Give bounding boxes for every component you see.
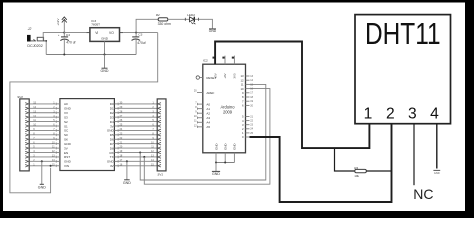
wire SV2 row 10 to U1 bbox=[30, 125, 56, 127]
svg-text:GND: GND bbox=[101, 37, 109, 41]
Arduino bottom pin GND bbox=[233, 153, 235, 163]
header SV2 bbox=[20, 99, 29, 171]
LED2 arrows bbox=[191, 22, 195, 24]
wire +5V net to DHT11 pin1 bbox=[215, 42, 369, 149]
wire jack ground drop bbox=[45, 41, 47, 55]
+12V supply symbol bbox=[63, 19, 65, 33]
Arduino top pin +5V bbox=[214, 56, 216, 65]
wire SV2 row 5 to U1 bbox=[30, 147, 56, 149]
svg-text:D3: D3 bbox=[110, 115, 114, 119]
svg-text:VIN: VIN bbox=[64, 164, 69, 168]
svg-text:S2: S2 bbox=[64, 120, 68, 124]
wire U1 to SV1 row 7 bbox=[119, 129, 158, 131]
svg-text:2: 2 bbox=[386, 105, 395, 122]
Arduino pin A3 bbox=[197, 117, 203, 119]
svg-text:D5: D5 bbox=[110, 133, 114, 137]
capacitor C4 bbox=[63, 33, 65, 37]
wire jack to +12V rail bbox=[43, 33, 64, 41]
node VO output bbox=[135, 32, 137, 34]
LED2 diode bbox=[190, 17, 195, 22]
wire U1 to SV1 row 4 bbox=[119, 116, 158, 118]
wire U1 to SV1 row 5 bbox=[119, 121, 158, 123]
svg-text:D0: D0 bbox=[110, 102, 114, 106]
svg-text:RST: RST bbox=[64, 155, 70, 159]
svg-text:GND: GND bbox=[101, 69, 109, 73]
wire SV2 row 9 to U1 bbox=[30, 129, 56, 131]
wire Arduino GND bus bbox=[216, 162, 234, 164]
node regulator gnd bbox=[103, 53, 105, 55]
wire SV2 row 2 to U1 bbox=[30, 160, 56, 162]
wire SV2 row 7 to U1 bbox=[30, 138, 56, 140]
svg-text:DCJ0202: DCJ0202 bbox=[27, 44, 42, 48]
svg-text:TX: TX bbox=[110, 155, 114, 159]
Arduino top pin +9V bbox=[224, 56, 226, 65]
wire +5V feed to NodeMCU VIN bbox=[10, 33, 158, 193]
svg-text:GND: GND bbox=[64, 160, 72, 164]
Arduino bottom pin GND bbox=[215, 153, 217, 163]
wire SV2 row 8 to U1 bbox=[30, 134, 56, 136]
wire U1 RX to Arduino bbox=[140, 84, 266, 180]
svg-text:VO: VO bbox=[109, 31, 114, 35]
svg-text:+9V: +9V bbox=[223, 73, 227, 78]
wire +12V rail to regulator VI bbox=[64, 32, 86, 34]
wire U1 to SV1 row 13 bbox=[119, 156, 158, 158]
Arduino pin A0 bbox=[197, 103, 203, 105]
wire SV2 row 4 to U1 bbox=[30, 152, 56, 154]
ground symbol SV1 area bbox=[126, 161, 128, 179]
node Arduino gnd 2 bbox=[224, 161, 226, 163]
header SV1 bbox=[157, 99, 166, 171]
wire SV2 row 6 to U1 bbox=[30, 143, 56, 145]
svg-text:D6: D6 bbox=[110, 138, 114, 142]
svg-text:GND: GND bbox=[123, 181, 131, 185]
ground symbol Arduino bbox=[215, 163, 217, 172]
wire SV2 row 11 to U1 bbox=[30, 121, 56, 123]
svg-text:SK: SK bbox=[64, 138, 68, 142]
svg-text:GND: GND bbox=[107, 160, 115, 164]
svg-text:A4: A4 bbox=[206, 121, 210, 125]
svg-text:S3: S3 bbox=[64, 115, 68, 119]
Arduino pin AREF bbox=[197, 92, 203, 94]
node U1 TX bbox=[143, 156, 145, 158]
svg-text:GND: GND bbox=[38, 186, 46, 190]
svg-text:GND: GND bbox=[209, 29, 217, 33]
regulator pin VI bbox=[86, 32, 90, 34]
svg-text:DHT11: DHT11 bbox=[365, 17, 441, 51]
node Arduino gnd 1 bbox=[215, 161, 217, 163]
module U1 NodeMCU body bbox=[60, 99, 115, 171]
svg-text:D1: D1 bbox=[110, 107, 114, 111]
svg-text:3: 3 bbox=[408, 105, 417, 122]
svg-text:VI: VI bbox=[95, 31, 98, 35]
wire U1 to SV1 row 9 bbox=[119, 138, 158, 140]
wire U1 to SV1 row 12 bbox=[119, 152, 158, 154]
Arduino pin A4 bbox=[197, 121, 203, 123]
ground bus wire bbox=[46, 54, 136, 56]
wire SV2 row 15 to U1 bbox=[30, 103, 56, 105]
wire R4 to data net bbox=[366, 170, 391, 172]
node U1 RX bbox=[139, 151, 141, 153]
resistor R2 body bbox=[158, 18, 168, 21]
svg-text:SV2: SV2 bbox=[17, 95, 23, 99]
svg-text:RX: RX bbox=[109, 151, 113, 155]
wire U1 to SV1 row 1 bbox=[119, 103, 158, 105]
svg-text:A0: A0 bbox=[64, 102, 68, 106]
wire +5V tap to R2 bbox=[136, 19, 158, 32]
svg-text:NC: NC bbox=[413, 186, 433, 202]
svg-text:R2: R2 bbox=[156, 13, 160, 17]
Arduino top pin 3V3 bbox=[233, 56, 235, 65]
svg-text:LED2: LED2 bbox=[187, 13, 195, 17]
Arduino pin RESET bbox=[196, 76, 199, 79]
wire SV2 row 14 to U1 bbox=[30, 107, 56, 109]
wire data net Arduino to DHT11 pin2 bbox=[250, 124, 392, 202]
wire U1 to SV1 row 10 bbox=[119, 143, 158, 145]
svg-text:1: 1 bbox=[364, 105, 373, 122]
svg-text:IC2: IC2 bbox=[203, 59, 208, 63]
svg-text:3V3: 3V3 bbox=[233, 73, 237, 79]
svg-text:A3: A3 bbox=[206, 116, 210, 120]
svg-text:4: 4 bbox=[430, 105, 439, 122]
svg-text:A1: A1 bbox=[206, 107, 210, 111]
wire SV2 row 1 to U1 bbox=[30, 165, 56, 167]
wire VO to C3 node bbox=[123, 32, 158, 34]
wire LED2 cathode to gnd bbox=[195, 18, 199, 20]
svg-text:470uf: 470uf bbox=[137, 41, 145, 45]
svg-text:C3: C3 bbox=[138, 33, 142, 37]
svg-text:EN: EN bbox=[64, 151, 68, 155]
svg-text:D2: D2 bbox=[110, 111, 114, 115]
node jack plus bbox=[63, 32, 65, 34]
ground symbol DHT11 pin4 bbox=[433, 169, 440, 171]
svg-text:10k: 10k bbox=[354, 174, 359, 178]
svg-text:GND: GND bbox=[212, 172, 220, 176]
wire R2 to LED2 bbox=[168, 18, 190, 20]
svg-text:A2: A2 bbox=[206, 112, 210, 116]
wire SV2 row 13 to U1 bbox=[30, 112, 56, 114]
Arduino IC2 body bbox=[203, 64, 246, 153]
svg-text:2009: 2009 bbox=[223, 109, 233, 114]
wire U1 to SV1 row 2 bbox=[119, 107, 158, 109]
svg-text:AREF: AREF bbox=[206, 91, 214, 95]
svg-text:GND: GND bbox=[64, 142, 72, 146]
power jack J2 bbox=[27, 35, 31, 42]
svg-text:GND: GND bbox=[224, 143, 228, 149]
svg-text:A0: A0 bbox=[206, 102, 210, 106]
wire U1 to SV1 row 3 bbox=[119, 112, 158, 114]
svg-text:+12V: +12V bbox=[56, 19, 60, 26]
svg-text:S1: S1 bbox=[64, 124, 68, 128]
svg-text:GND: GND bbox=[107, 129, 115, 133]
node U1 VIN bbox=[50, 165, 52, 167]
svg-text:A5: A5 bbox=[206, 125, 210, 129]
Arduino pin A5 bbox=[197, 126, 203, 128]
svg-text:D4: D4 bbox=[110, 120, 114, 124]
wire U1 to SV1 row 15 bbox=[119, 165, 158, 167]
wire SV2 row 3 to U1 bbox=[30, 156, 56, 158]
svg-text:RESET: RESET bbox=[206, 76, 216, 80]
wire U1 to SV1 row 8 bbox=[119, 134, 158, 136]
wire U1 to SV1 row 14 bbox=[119, 160, 158, 162]
ground symbol power bbox=[104, 55, 106, 69]
node jack gnd bbox=[45, 40, 47, 42]
wire U1 to SV1 row 6 bbox=[119, 125, 158, 127]
wire DHT11 pin3 NC stub bbox=[413, 124, 415, 186]
capacitor C3 bbox=[135, 33, 137, 37]
wire SV2 row 12 to U1 bbox=[30, 116, 56, 118]
sensor DHT11 body bbox=[355, 15, 451, 124]
svg-text:470 uf: 470 uf bbox=[66, 41, 75, 45]
regulator IC3 7805T body bbox=[90, 28, 120, 42]
svg-text:7805T: 7805T bbox=[91, 22, 100, 26]
wire R4 pullup tap bbox=[335, 148, 355, 171]
svg-text:S0: S0 bbox=[64, 133, 68, 137]
svg-text:330 ohm: 330 ohm bbox=[158, 22, 171, 26]
wire DHT11 pin4 to ground bbox=[436, 124, 438, 169]
ground symbol LED2 bbox=[209, 28, 216, 30]
svg-text:SV1: SV1 bbox=[157, 172, 163, 176]
svg-text:GND: GND bbox=[434, 171, 440, 175]
svg-text:GND: GND bbox=[214, 143, 218, 149]
node U1 GND left bbox=[41, 160, 43, 162]
svg-text:GND: GND bbox=[233, 143, 237, 149]
Arduino bottom pin GND bbox=[224, 153, 226, 163]
node C4 gnd bbox=[63, 53, 65, 55]
svg-text:D8: D8 bbox=[110, 146, 114, 150]
svg-text:C4: C4 bbox=[66, 33, 70, 37]
node U1 GND right bbox=[126, 160, 128, 162]
ground symbol SV2 bbox=[41, 161, 43, 184]
svg-text:D7: D7 bbox=[110, 142, 114, 146]
svg-text:GND: GND bbox=[64, 107, 72, 111]
svg-text:J2: J2 bbox=[27, 27, 32, 31]
wire U1 to SV1 row 11 bbox=[119, 147, 158, 149]
Arduino pin A2 bbox=[197, 112, 203, 114]
resistor R4 body bbox=[355, 169, 367, 172]
Arduino pin A1 bbox=[197, 108, 203, 110]
wire U1 TX to Arduino bbox=[144, 89, 270, 185]
